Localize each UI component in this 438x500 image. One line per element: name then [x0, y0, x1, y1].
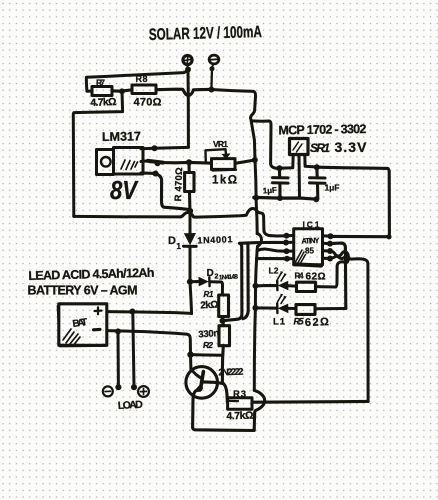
resistor R7	[92, 87, 112, 96]
Q1 base bar	[200, 372, 203, 390]
terminal plus	[183, 55, 192, 67]
resistor R4	[297, 282, 316, 291]
Q1 base wire entering	[191, 355, 203, 379]
node R7/R8 junction	[119, 88, 125, 94]
svg-text:470Ω: 470Ω	[134, 97, 162, 109]
Q1 emitter arrow	[193, 385, 201, 393]
wire left loop bottom going right	[74, 215, 181, 219]
wire rail to IC pin L2 with risers to R1 bottom	[240, 241, 286, 245]
wire hop over D1 rail	[181, 213, 197, 218]
svg-text:1μF: 1μF	[325, 183, 340, 193]
wire riser a (doubled stroke)	[223, 243, 242, 320]
svg-text:SR1: SR1	[310, 141, 330, 155]
svg-text:VR1: VR1	[213, 139, 228, 149]
svg-text:L1: L1	[273, 317, 286, 328]
node stub minus end	[115, 384, 121, 390]
LED L2 row: node on rail	[253, 283, 259, 289]
wire IC pin R4 hops to long riser	[330, 256, 368, 401]
node IC pin L1	[284, 233, 290, 239]
wire rail to IC pin L4	[257, 257, 287, 260]
wire top bus from plus terminal to R7	[86, 71, 187, 91]
svg-text:62Ω: 62Ω	[306, 272, 326, 283]
potentiometer VR1 wiper loop	[206, 149, 227, 162]
svg-text:R4: R4	[295, 272, 305, 281]
node IC pin R3	[327, 248, 333, 254]
svg-text:ATINY: ATINY	[301, 236, 319, 246]
wire base junction to R2 bottom	[191, 353, 223, 357]
wire battery plus to center rail	[107, 312, 192, 314]
wire load stub plus	[133, 312, 134, 387]
LM317 ADJ stub	[141, 171, 156, 174]
wire plus rail down	[187, 70, 190, 148]
node IC pin R1	[328, 233, 334, 239]
node cap2 top	[314, 164, 320, 170]
wire IC pin R3 hop to R4 riser	[330, 251, 348, 263]
diode D2	[190, 280, 198, 283]
wire rail to IC pin L3	[257, 249, 286, 251]
node base junction	[187, 351, 193, 357]
wire R3 to IC riser	[252, 400, 368, 404]
svg-text:D: D	[168, 235, 176, 247]
transistor Q1 2N2222	[186, 367, 218, 399]
regulator U2 LM317 body	[114, 148, 144, 175]
wire R4 right riser up	[316, 262, 347, 287]
wire 470R bottom to D1	[189, 211, 192, 233]
wire minus rail branch to SR1 input	[252, 121, 280, 168]
chip IC1 ATTINY85 box	[294, 229, 323, 265]
diode D1	[184, 233, 196, 245]
IC1 right pin stubs	[323, 236, 331, 259]
wire LM317 IN pin to plus rail	[141, 147, 188, 148]
svg-text:LOAD: LOAD	[118, 399, 144, 412]
svg-text:SOLAR 12V / 100mA: SOLAR 12V / 100mA	[149, 23, 262, 44]
wire to IC pin area	[196, 208, 286, 236]
svg-text:BAT: BAT	[72, 317, 88, 330]
SR1 left leg	[280, 155, 294, 169]
node load minus stub	[115, 328, 121, 334]
load plus terminal	[138, 386, 149, 397]
node stub plus end	[131, 384, 137, 390]
node VCC loop end	[386, 234, 391, 239]
svg-text:62Ω: 62Ω	[305, 316, 330, 329]
node IC pin R4	[327, 256, 333, 262]
svg-text:BATTERY 6V – AGM: BATTERY 6V – AGM	[28, 284, 138, 298]
LED L1 light arrows	[278, 295, 286, 304]
resistor R5	[296, 305, 315, 315]
wire riser b (doubled stroke)	[243, 244, 248, 319]
node LM317 OUT	[155, 160, 161, 166]
svg-text:4.7kΩ: 4.7kΩ	[90, 96, 116, 109]
wire VR1 right to minus rail	[235, 160, 255, 163]
wire rail to LED L2	[256, 284, 277, 287]
node bus cap1	[277, 195, 283, 201]
wire minus rail hop over wire at y217	[256, 198, 257, 234]
wire emitter to bottom rail	[193, 427, 255, 430]
svg-text:1N4148: 1N4148	[219, 273, 239, 281]
battery minus sign	[94, 328, 101, 331]
wire R5 right to riser	[315, 307, 346, 310]
wire R7 to R8	[112, 90, 132, 91]
wire rail to LED L1	[255, 306, 276, 309]
battery BAT box	[59, 304, 107, 346]
SR1 right leg	[305, 155, 317, 168]
node bus cap2 end	[313, 196, 319, 202]
svg-text:1N4001: 1N4001	[197, 234, 232, 245]
wire load stub minus	[117, 331, 120, 387]
node IC pin R2	[327, 241, 333, 247]
Q1 emitter	[193, 388, 202, 427]
wire LM317 OUT pin to VR1	[141, 161, 212, 163]
node bus left	[253, 195, 259, 201]
wire from R7/R8 junction down-left	[73, 91, 122, 216]
svg-text:R7: R7	[96, 78, 105, 88]
wire LED L2 to R4	[288, 284, 296, 287]
regulator U2 LM317 tab	[97, 150, 114, 175]
node cap1 top	[277, 165, 283, 171]
LED L2 light arrows	[278, 273, 286, 282]
LED L1	[276, 303, 279, 313]
node IC pin L4	[284, 256, 290, 262]
node 470R bottom / ADJ junction	[187, 208, 193, 214]
wire minus terminal down	[210, 69, 213, 90]
wire LED L1 to R5	[288, 307, 296, 310]
svg-text:R5: R5	[294, 317, 305, 327]
wire minus rail hop over pin2 wire	[257, 234, 262, 259]
svg-text:1kΩ: 1kΩ	[212, 175, 237, 187]
resistor R1	[219, 295, 229, 317]
node VR1 right on rail	[252, 157, 258, 163]
Q1 collector down branch to R3	[223, 384, 227, 403]
svg-text:1μF: 1μF	[263, 186, 278, 196]
regulator SR1 box	[290, 139, 309, 155]
resistor R8	[132, 85, 156, 94]
svg-text:MCP 1702 - 3302: MCP 1702 - 3302	[278, 122, 366, 138]
wire minus rail mid	[255, 160, 256, 198]
node LM317 IN	[152, 145, 158, 151]
wire minus rail right and down	[211, 90, 255, 160]
svg-text:3.3V: 3.3V	[335, 139, 368, 155]
node LM317 ADJ	[153, 171, 159, 177]
wire R2/collector riser	[221, 355, 224, 383]
svg-text:8V: 8V	[110, 175, 139, 205]
capacitor C1 1uF	[278, 168, 281, 177]
load minus terminal	[103, 386, 113, 396]
wire ADJ down and right to 470R bottom	[156, 174, 190, 210]
svg-text:1: 1	[177, 242, 182, 251]
potentiometer VR1 body	[212, 159, 236, 170]
wire center rail D2 node down to battery wire	[190, 282, 192, 314]
LM317 OUT pin thick spindle	[148, 161, 163, 163]
wire SR1 output long to right	[317, 167, 390, 237]
node R1 bottom	[219, 318, 225, 324]
wire minus rail to LED rows	[254, 259, 256, 391]
node minus rail top junction	[208, 87, 214, 93]
svg-text:R2: R2	[203, 340, 213, 350]
node IC pin L2	[283, 240, 289, 246]
resistor 470R vertical	[187, 162, 190, 172]
capacitor C2 1uF	[315, 167, 319, 177]
svg-text:2kΩ: 2kΩ	[200, 300, 219, 312]
wire minus rail hop over R3 wire	[254, 390, 265, 429]
svg-text:R1: R1	[204, 290, 215, 299]
node load plus stub	[129, 309, 135, 315]
SR1 middle leg	[298, 155, 302, 198]
svg-text:85: 85	[305, 247, 315, 256]
wire R8 right with hop over plus rail	[156, 89, 211, 95]
capacitor R2 330n	[221, 321, 225, 326]
wire IC pin R2 to R5 riser	[330, 243, 346, 308]
node plus rail / 470R top	[186, 159, 192, 165]
IC1 left pin stubs	[286, 235, 294, 258]
svg-text:4.7kΩ: 4.7kΩ	[226, 410, 253, 423]
svg-text:330n: 330n	[198, 328, 220, 340]
svg-text:L2: L2	[269, 266, 279, 276]
wire ground bus under caps	[254, 197, 317, 199]
LED L1 row: node on rail	[252, 305, 258, 311]
Q1 collector	[203, 382, 222, 383]
svg-text:D: D	[207, 268, 214, 279]
node D2 branch	[187, 279, 193, 285]
LED L2	[276, 281, 279, 291]
svg-text:LM317: LM317	[102, 129, 141, 144]
terminal minus	[209, 55, 219, 67]
svg-text:2N2222: 2N2222	[218, 367, 243, 379]
svg-text:R8: R8	[136, 74, 148, 84]
node IC pin L3	[284, 248, 290, 254]
battery plus sign	[95, 307, 102, 314]
wire battery minus	[107, 331, 191, 355]
svg-text:R 470Ω: R 470Ω	[173, 167, 185, 202]
